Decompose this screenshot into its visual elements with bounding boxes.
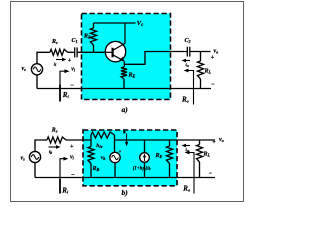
voltage arrow vi (a) — [60, 71, 65, 88]
Vc supply rail — [94, 22, 136, 24]
source vs (b) — [29, 151, 40, 162]
resistor RB (a) — [93, 23, 95, 28]
Ri marker tick (b) — [59, 179, 61, 194]
small-signal block box (circuit b) — [83, 130, 177, 186]
voltage arrow vi (b) — [60, 159, 64, 178]
resistor RB (b) — [88, 147, 94, 164]
svg-text:RB: RB — [92, 166, 100, 172]
svg-text:RE: RE — [128, 73, 136, 79]
wire vs to Rs (b) — [35, 140, 47, 152]
svg-text:C1: C1 — [72, 38, 78, 44]
capacitor C1 — [75, 47, 77, 57]
wire emitter tap to C2 — [124, 52, 187, 65]
capacitor C2 — [187, 47, 190, 57]
svg-text:+: + — [212, 139, 216, 145]
svg-text:RL: RL — [204, 69, 212, 75]
svg-text:+: + — [70, 144, 74, 150]
wire C1 to base (a) — [77, 51, 112, 53]
svg-text:vs: vs — [21, 156, 26, 162]
resistor Rs (b) — [47, 137, 66, 143]
dependent source vb — [114, 140, 116, 153]
svg-text:vb: vb — [101, 155, 106, 161]
svg-text:−: − — [209, 171, 213, 177]
wire vs top to Rs (a) — [37, 52, 50, 63]
svg-text:RB: RB — [83, 34, 91, 40]
current arrow io (b) — [185, 145, 190, 147]
Ro look-in arrow (b) — [189, 153, 194, 194]
svg-text:+: + — [119, 150, 122, 155]
Ri marker tick (a) — [59, 85, 61, 102]
wire hie node to current source (b) — [115, 139, 170, 141]
wire box to vo (b) — [170, 139, 216, 141]
svg-text:vo: vo — [214, 49, 219, 55]
svg-text:+: + — [211, 55, 215, 61]
svg-text:a): a) — [122, 105, 129, 114]
current source (1+hfe)ib — [144, 140, 146, 153]
svg-text:(1+hfe)ib: (1+hfe)ib — [133, 166, 151, 171]
svg-text:Rs: Rs — [51, 39, 58, 45]
svg-text:b): b) — [122, 188, 129, 197]
current arrow down at top (b) — [123, 131, 125, 134]
wire Rs to C1 (a) — [68, 51, 75, 53]
resistor hie — [90, 135, 92, 140]
svg-text:vo: vo — [219, 137, 224, 143]
border frame — [11, 2, 244, 202]
current arrow ib (b) — [49, 146, 57, 148]
transistor Q1 — [104, 23, 126, 67]
source vs (a) — [31, 64, 42, 75]
svg-text:Rs: Rs — [51, 128, 58, 134]
resistor Rs (a) — [50, 49, 68, 55]
svg-text:+: + — [68, 58, 72, 64]
resistor RL (b) — [199, 140, 201, 145]
svg-text:C2: C2 — [185, 38, 191, 44]
amplifier block box (circuit a) — [82, 14, 171, 100]
resistor RL (a) — [200, 52, 202, 62]
svg-text:RE: RE — [155, 153, 163, 159]
svg-text:ib: ib — [49, 149, 52, 155]
svg-text:RL: RL — [203, 152, 211, 158]
bottom rail (b) — [35, 163, 215, 178]
svg-text:vs: vs — [22, 66, 27, 72]
Ro look-in arrow (a) — [188, 71, 194, 105]
svg-text:−: − — [211, 82, 215, 88]
svg-text:io: io — [186, 62, 189, 68]
wire Rs to box (b) — [66, 139, 91, 141]
current arrow io (a) — [185, 60, 190, 62]
resistor RE (a) — [121, 67, 127, 79]
wire C2 to vo — [190, 51, 211, 53]
current arrow ii (a) — [56, 59, 63, 61]
svg-text:hie: hie — [96, 143, 102, 149]
resistor RE (b) — [169, 140, 171, 146]
bottom rail (a) — [37, 75, 211, 89]
